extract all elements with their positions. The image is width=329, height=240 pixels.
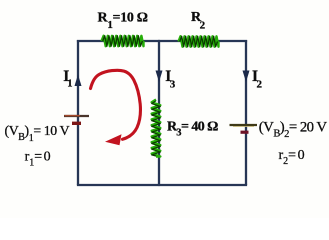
battery B1 top plate — [64, 115, 89, 117]
node junction top (middle branch to top wire) — [158, 40, 160, 42]
resistor R1 — [102, 36, 144, 46]
battery B2 bottom plate — [241, 131, 249, 134]
svg-text:I1: I1 — [63, 68, 72, 90]
svg-text:r1=0: r1=0 — [25, 150, 51, 169]
current arrow I2 (down) — [243, 71, 250, 83]
node junction bottom (middle branch to bottom wire) — [158, 184, 160, 186]
svg-text:(VB)1= 10 V: (VB)1= 10 V — [5, 123, 70, 144]
svg-text:R2: R2 — [191, 10, 206, 32]
svg-text:R1=10 Ω: R1=10 Ω — [98, 11, 148, 32]
wire bottom — [77, 184, 247, 186]
battery B1 bottom plate — [72, 122, 81, 125]
battery B2 top plate — [230, 124, 258, 126]
wire top left (R1 branch) — [77, 40, 159, 42]
current arrow I1 (up) — [75, 75, 82, 87]
resistor R3 — [152, 100, 161, 157]
wire middle branch (R3 branch) — [158, 41, 160, 185]
loop direction arrow (red, clockwise) — [91, 70, 141, 145]
svg-text:I2: I2 — [252, 68, 263, 91]
svg-text:r2=0: r2=0 — [279, 148, 305, 167]
svg-text:I3: I3 — [165, 68, 176, 91]
wire right branch (battery B2 branch) — [245, 40, 247, 185]
svg-text:R3= 40 Ω: R3= 40 Ω — [167, 120, 218, 139]
resistor R2 — [179, 36, 219, 46]
svg-text:(VB)2= 20 V: (VB)2= 20 V — [259, 119, 328, 140]
wire left branch (battery B1 branch) — [77, 40, 79, 185]
wire top right (R2 branch) — [159, 40, 247, 42]
current arrow I3 (down) — [156, 71, 163, 83]
